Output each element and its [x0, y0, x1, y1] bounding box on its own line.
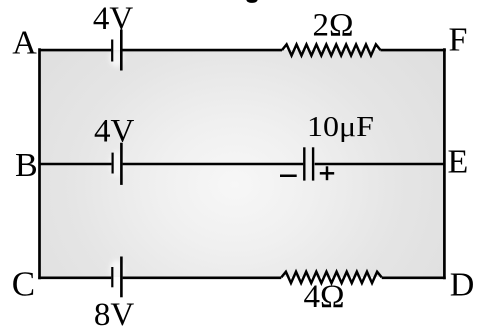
white halo behind top battery: [110, 49, 124, 67]
capacitor C1 10µF: [304, 147, 313, 180]
battery V2 long plate (positive): [120, 143, 123, 185]
svg-text:C: C: [12, 265, 35, 304]
svg-text:F: F: [448, 22, 467, 59]
battery V3 8V (bottom): [112, 257, 121, 298]
resistor R1 2Ω (top): [282, 44, 381, 55]
resistor R2 4Ω (bottom): [281, 272, 381, 283]
wire: right edge F-E-D: [443, 48, 446, 279]
wire: top edge battery to resistor: [122, 49, 282, 52]
wire: left edge A-B-C: [38, 48, 41, 279]
svg-text:D: D: [450, 266, 475, 303]
white halo behind middle battery: [110, 151, 124, 177]
svg-text:E: E: [448, 143, 469, 180]
polarity plus sign: [320, 166, 334, 180]
svg-text:4V: 4V: [94, 113, 135, 149]
wire: middle battery to capacitor: [123, 163, 304, 165]
battery V3 short plate (negative): [111, 267, 113, 287]
battery V2 4V (middle): [113, 143, 122, 185]
svg-text:A: A: [12, 24, 37, 61]
capacitor C1 left plate (negative): [303, 147, 305, 180]
circuit interior shading: [40, 50, 444, 277]
svg-text:10μF: 10μF: [307, 112, 374, 143]
wire: middle B to battery: [40, 163, 111, 165]
battery V2 short plate (negative): [111, 153, 113, 174]
wire: capacitor to E: [315, 163, 444, 165]
polarity minus sign: [280, 174, 297, 177]
svg-text:B: B: [15, 147, 38, 184]
capacitor C1 right plate (positive): [312, 147, 314, 180]
svg-text:2Ω: 2Ω: [312, 8, 353, 44]
wire: bottom resistor to D: [382, 276, 446, 279]
svg-text:4Ω: 4Ω: [303, 279, 344, 315]
battery V3 long plate (positive): [120, 257, 123, 298]
wire: bottom C to battery: [38, 276, 111, 279]
white halo behind bottom battery: [110, 260, 124, 280]
battery V1 4V (top): [112, 30, 121, 71]
partial glyph descender (cut-off text) at top center: [246, 0, 257, 3]
wire: top edge resistor to F: [381, 49, 446, 52]
svg-text:8V: 8V: [94, 297, 135, 330]
battery V1 long plate (positive): [120, 30, 123, 71]
wire: bottom battery to resistor: [123, 276, 282, 279]
svg-text:4V: 4V: [93, 1, 134, 37]
battery V1 short plate (negative): [111, 40, 113, 62]
wire: top edge A to battery: [39, 49, 112, 52]
